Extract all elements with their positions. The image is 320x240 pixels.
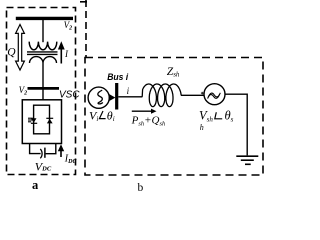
transformer T1 secondary winding bbox=[30, 57, 57, 63]
current arrow I bbox=[60, 48, 62, 64]
bus bar V2 (top) bbox=[16, 17, 73, 20]
DC link wiring right bbox=[46, 144, 56, 154]
wire bus to transformer bbox=[42, 20, 44, 42]
DC link wiring left bbox=[30, 144, 41, 154]
source Vsh circle bbox=[204, 84, 225, 105]
current arrow Idc bbox=[60, 150, 62, 158]
wire bus to Zsh bbox=[118, 96, 142, 98]
dashed divider stub top bbox=[80, 1, 87, 3]
power flow arrow bbox=[132, 110, 152, 112]
svg-text:h: h bbox=[200, 123, 204, 132]
source Vi circle bbox=[88, 87, 109, 108]
svg-text:IDC: IDC bbox=[64, 154, 78, 165]
inductor Zsh coil bbox=[142, 84, 181, 107]
wire bar to converter box bbox=[42, 90, 44, 101]
svg-text:Vi: Vi bbox=[89, 108, 98, 123]
svg-text:Zsh: Zsh bbox=[167, 66, 180, 79]
svg-text:VSC: VSC bbox=[59, 90, 80, 101]
transformer T1 primary winding bbox=[29, 42, 57, 50]
svg-text:Vsh: Vsh bbox=[199, 109, 213, 124]
dashed box a bbox=[7, 8, 76, 175]
capacitor C (flat plate) bbox=[44, 148, 46, 158]
svg-text:VDC: VDC bbox=[35, 159, 52, 173]
bus bar i bbox=[115, 83, 118, 110]
reactive power arrow Q (hollow double arrow) bbox=[16, 25, 25, 71]
svg-text:I: I bbox=[64, 49, 69, 59]
source Vi squiggle bbox=[98, 90, 103, 104]
wire Zsh to source bbox=[181, 94, 204, 96]
plus mark bbox=[201, 92, 204, 94]
converter terminal bar bbox=[28, 87, 60, 90]
VSC valve branch box bbox=[34, 105, 50, 134]
diode (right) bbox=[46, 117, 53, 119]
ground bbox=[236, 155, 258, 157]
GTO valve (left) bbox=[31, 118, 37, 123]
transformer T1 core bbox=[27, 51, 58, 53]
wire source to bus with arrow bbox=[109, 94, 116, 102]
svg-text:Psh+Qsh: Psh+Qsh bbox=[131, 115, 166, 128]
wire transformer to VSC bar bbox=[42, 63, 44, 87]
source Vsh sine bbox=[208, 93, 220, 97]
svg-text:V2: V2 bbox=[64, 20, 73, 32]
VSC outer box bbox=[22, 100, 61, 144]
svg-text:V2: V2 bbox=[19, 85, 28, 97]
svg-text:Q: Q bbox=[7, 46, 16, 58]
svg-text:θs: θs bbox=[225, 109, 234, 124]
dashed box b bbox=[85, 58, 263, 176]
svg-text:θi: θi bbox=[107, 108, 115, 123]
svg-text:b: b bbox=[138, 182, 144, 192]
svg-text:a: a bbox=[32, 178, 39, 192]
svg-text:Bus i: Bus i bbox=[107, 72, 128, 83]
capacitor C (curved plate) bbox=[40, 149, 42, 158]
svg-text:i: i bbox=[127, 86, 130, 96]
wire source to ground bbox=[225, 94, 247, 155]
